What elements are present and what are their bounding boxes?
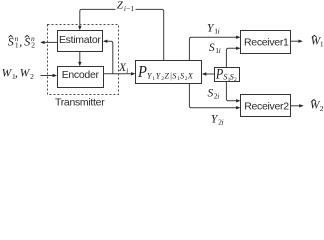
arrowhead into estimator top xyxy=(78,26,81,30)
svg-text:W: W xyxy=(2,68,13,80)
svg-text:S: S xyxy=(172,72,176,81)
svg-text:P: P xyxy=(137,62,147,81)
wire estimator to encoder xyxy=(79,52,81,65)
svg-text:i: i xyxy=(217,92,219,101)
wire S2 from P_{S1S2} bottom to receiver2 xyxy=(226,82,239,101)
wire P_{S1S2} to channel (arrow pointing left) xyxy=(203,73,214,75)
svg-text:i: i xyxy=(218,26,220,35)
wire Xi from encoder to channel xyxy=(104,73,134,75)
wire W input arrow into encoder xyxy=(41,75,56,77)
svg-text:2: 2 xyxy=(234,77,237,83)
svg-text:,: , xyxy=(15,68,18,80)
svg-text:2: 2 xyxy=(31,41,35,50)
svg-text:S: S xyxy=(180,72,184,81)
wire Xi tap up into estimator right side xyxy=(104,41,113,74)
svg-text:Z: Z xyxy=(165,72,170,81)
svg-text:S: S xyxy=(24,34,30,48)
receiver2 box xyxy=(241,95,291,117)
label Z_{i-1} white backing xyxy=(116,0,136,12)
svg-text:Receiver1: Receiver1 xyxy=(244,37,289,49)
svg-text:S: S xyxy=(208,88,214,100)
wire Shat output arrow (estimator left, pointing left) xyxy=(42,41,58,43)
encoder box xyxy=(58,67,104,88)
channel box xyxy=(136,61,202,84)
svg-text:Z: Z xyxy=(117,0,124,12)
svg-text:1: 1 xyxy=(320,39,324,48)
dashed transmitter box xyxy=(48,25,119,95)
svg-text:2: 2 xyxy=(320,104,324,113)
svg-text:i: i xyxy=(219,46,221,55)
wire S1 from P_{S1S2} top to receiver1 xyxy=(226,48,239,67)
wire Y2 from channel bottom to receiver2 xyxy=(189,84,239,108)
svg-text:i: i xyxy=(126,66,128,75)
svg-text:W: W xyxy=(20,68,31,80)
estimator box xyxy=(58,31,103,52)
wire Z feedback from channel top to estimator top xyxy=(80,9,164,60)
wire W2hat output xyxy=(291,105,303,107)
svg-text:P: P xyxy=(215,66,223,82)
receiver1 box xyxy=(241,31,291,54)
svg-text:S: S xyxy=(8,34,14,48)
svg-text:S: S xyxy=(209,42,215,54)
svg-text:Estimator: Estimator xyxy=(59,34,101,46)
svg-text:Encoder: Encoder xyxy=(62,69,100,81)
svg-text:Transmitter: Transmitter xyxy=(55,97,105,109)
box P_{S1S2} xyxy=(215,68,240,82)
wire Y1 from channel top to receiver1 xyxy=(189,37,239,60)
svg-text:i: i xyxy=(222,118,224,127)
svg-text:2: 2 xyxy=(30,72,34,81)
svg-text:−1: −1 xyxy=(126,4,134,13)
svg-text:,: , xyxy=(19,34,22,48)
wire W1hat output xyxy=(291,40,302,42)
svg-text:Receiver2: Receiver2 xyxy=(244,101,289,113)
